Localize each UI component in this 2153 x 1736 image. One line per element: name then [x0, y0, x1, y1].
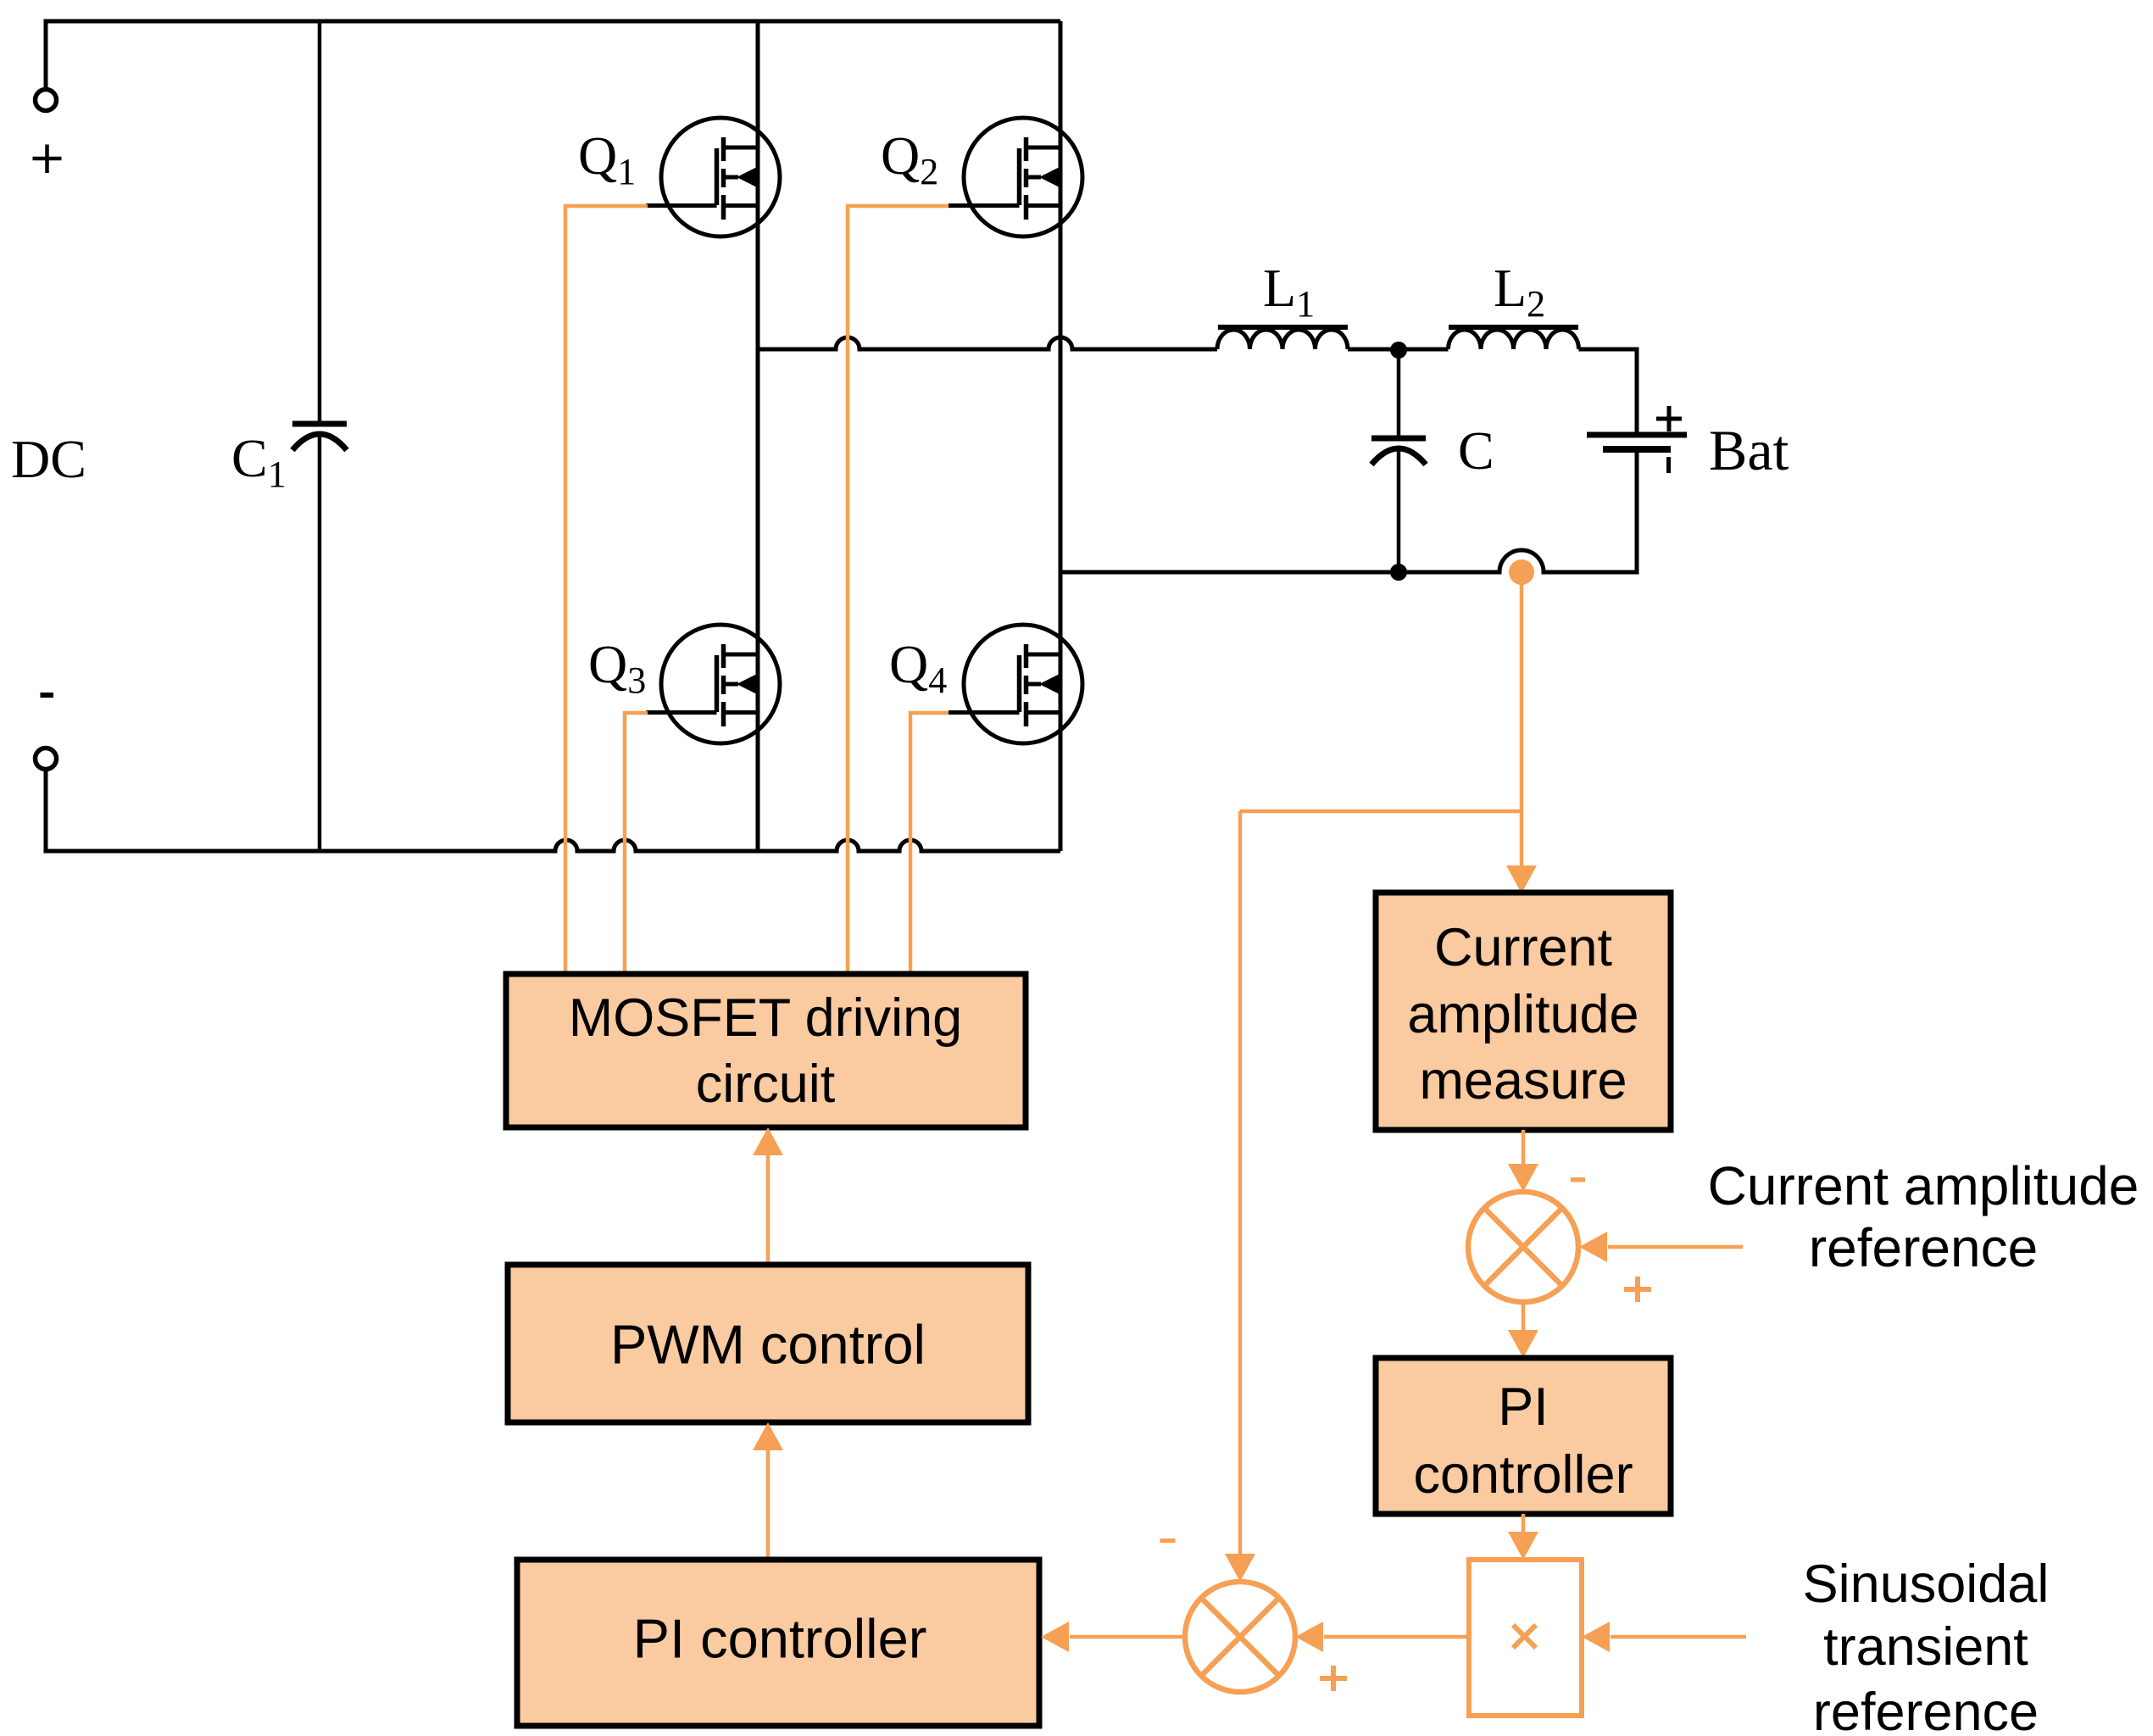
wire: bottom output rail with hop at sense tap [1060, 550, 1637, 572]
svg-text:Q1: Q1 [578, 125, 636, 192]
summing junction left [1185, 1582, 1295, 1692]
arrow into left summing junction [1225, 1554, 1255, 1582]
block Current amplitude measure [1376, 893, 1671, 1130]
svg-text:PI: PI [1498, 1377, 1549, 1437]
wire: DC- terminal lead [44, 770, 48, 854]
arrow left summing junction to PI controller (left) [1070, 1635, 1185, 1639]
capacitor C1 top lead [318, 21, 322, 421]
wire multiplier to left summing junction [1324, 1635, 1469, 1639]
inductor L2 [1449, 330, 1579, 349]
capacitor C1 curved plate [292, 434, 347, 450]
capacitor C1 top plate [292, 421, 347, 427]
wire: feedback down to summing junction (orange) [1238, 811, 1243, 1555]
multiplier block [1469, 1560, 1582, 1716]
transistor Q1 [646, 118, 780, 236]
svg-text:DC: DC [11, 429, 86, 489]
wire: L2 to battery top [1579, 349, 1638, 435]
wire: sense tap down (orange) [1520, 572, 1524, 867]
svg-text:Q4: Q4 [889, 634, 947, 701]
minus label left summing junction [1160, 1538, 1176, 1543]
wire: bottom DC bus with hops over gate wires [44, 840, 1061, 851]
transistor Q4 [949, 625, 1082, 743]
battery Bat bottom plate [1603, 446, 1671, 453]
wire: DC+ terminal lead [44, 21, 48, 89]
node B junction dot bottom of C [1390, 564, 1407, 581]
orange sense tap dot [1509, 559, 1534, 585]
svg-text:C1: C1 [231, 428, 287, 495]
plus sign DC [33, 157, 62, 161]
arrow right summing junction to PI controller [1522, 1302, 1526, 1332]
battery Bat top plate [1587, 432, 1687, 438]
transistor Q2 [949, 118, 1082, 236]
svg-text:PI controller: PI controller [633, 1608, 927, 1670]
battery plus sign [1656, 417, 1682, 421]
svg-text:measure: measure [1419, 1051, 1627, 1110]
svg-text:L2: L2 [1494, 258, 1545, 325]
wire: Q3 gate drive (orange) [625, 713, 648, 974]
svg-text:Sinusoidal: Sinusoidal [1803, 1555, 2050, 1614]
capacitor C top plate [1371, 436, 1426, 442]
block PI controller (right) [1376, 1358, 1671, 1514]
block PWM control [508, 1265, 1028, 1422]
battery Bat bottom lead [1635, 449, 1639, 575]
plus label left summing junction [1320, 1676, 1347, 1681]
terminal circle DC+ [36, 90, 57, 111]
svg-text:Current amplitude: Current amplitude [1708, 1155, 2139, 1216]
svg-text:reference: reference [1809, 1217, 2038, 1278]
block PI controller (left) [517, 1560, 1039, 1726]
svg-text:reference: reference [1813, 1683, 2039, 1736]
arrow PWM control to MOSFET driving circuit [766, 1153, 771, 1265]
svg-text:C: C [1458, 420, 1494, 481]
wire: Q4 gate drive (orange) [910, 713, 949, 974]
wire: H-bridge right leg [1059, 21, 1063, 851]
arrow PI controller to PWM control [766, 1448, 771, 1560]
capacitor C curved plate [1371, 448, 1426, 465]
wire: Q1 gate drive (orange) [565, 206, 648, 974]
svg-text:Q2: Q2 [881, 125, 938, 192]
terminal circle DC- [36, 748, 57, 770]
svg-text:PWM control: PWM control [610, 1314, 926, 1376]
svg-text:L1: L1 [1263, 258, 1315, 325]
wire: H-bridge left leg [756, 21, 760, 851]
svg-text:transient: transient [1823, 1617, 2028, 1677]
svg-text:amplitude: amplitude [1407, 985, 1638, 1044]
wire: feedback branch left (orange) [1240, 810, 1522, 814]
svg-text:circuit: circuit [696, 1054, 836, 1114]
capacitor C1 bottom lead [318, 434, 322, 851]
svg-text:Bat: Bat [1709, 418, 1789, 482]
wire: L1 to L2 [1348, 348, 1449, 352]
svg-text:Q3: Q3 [588, 634, 646, 701]
svg-text:controller: controller [1413, 1445, 1633, 1505]
node A junction dot top of C [1390, 342, 1407, 359]
minus label right summing junction [1571, 1177, 1585, 1182]
transistor Q3 [646, 625, 780, 743]
svg-text:MOSFET driving: MOSFET driving [569, 988, 962, 1048]
plus label right summing junction [1624, 1287, 1651, 1292]
minus sign DC [41, 693, 54, 698]
battery minus tick [1666, 457, 1671, 473]
svg-text:Current: Current [1434, 918, 1613, 977]
arrow sinusoidal reference into multiplier [1611, 1635, 1746, 1639]
capacitor C bottom lead [1397, 448, 1401, 572]
inductor L1 [1217, 330, 1348, 349]
wire: Q2 gate drive (orange) [848, 206, 949, 974]
wire: top DC bus [44, 19, 1061, 24]
arrow Current amplitude measure to right summing junction [1522, 1130, 1526, 1165]
arrow current amplitude reference into right summing junction [1608, 1245, 1743, 1249]
arrow PI controller to multiplier [1522, 1514, 1526, 1533]
arrow into Current amplitude measure [1506, 865, 1537, 893]
summing junction right [1468, 1192, 1578, 1302]
block MOSFET driving circuit [506, 974, 1026, 1127]
wire: bridge mid rail to L1 with hops [758, 337, 1217, 349]
capacitor C top lead [1397, 349, 1401, 436]
